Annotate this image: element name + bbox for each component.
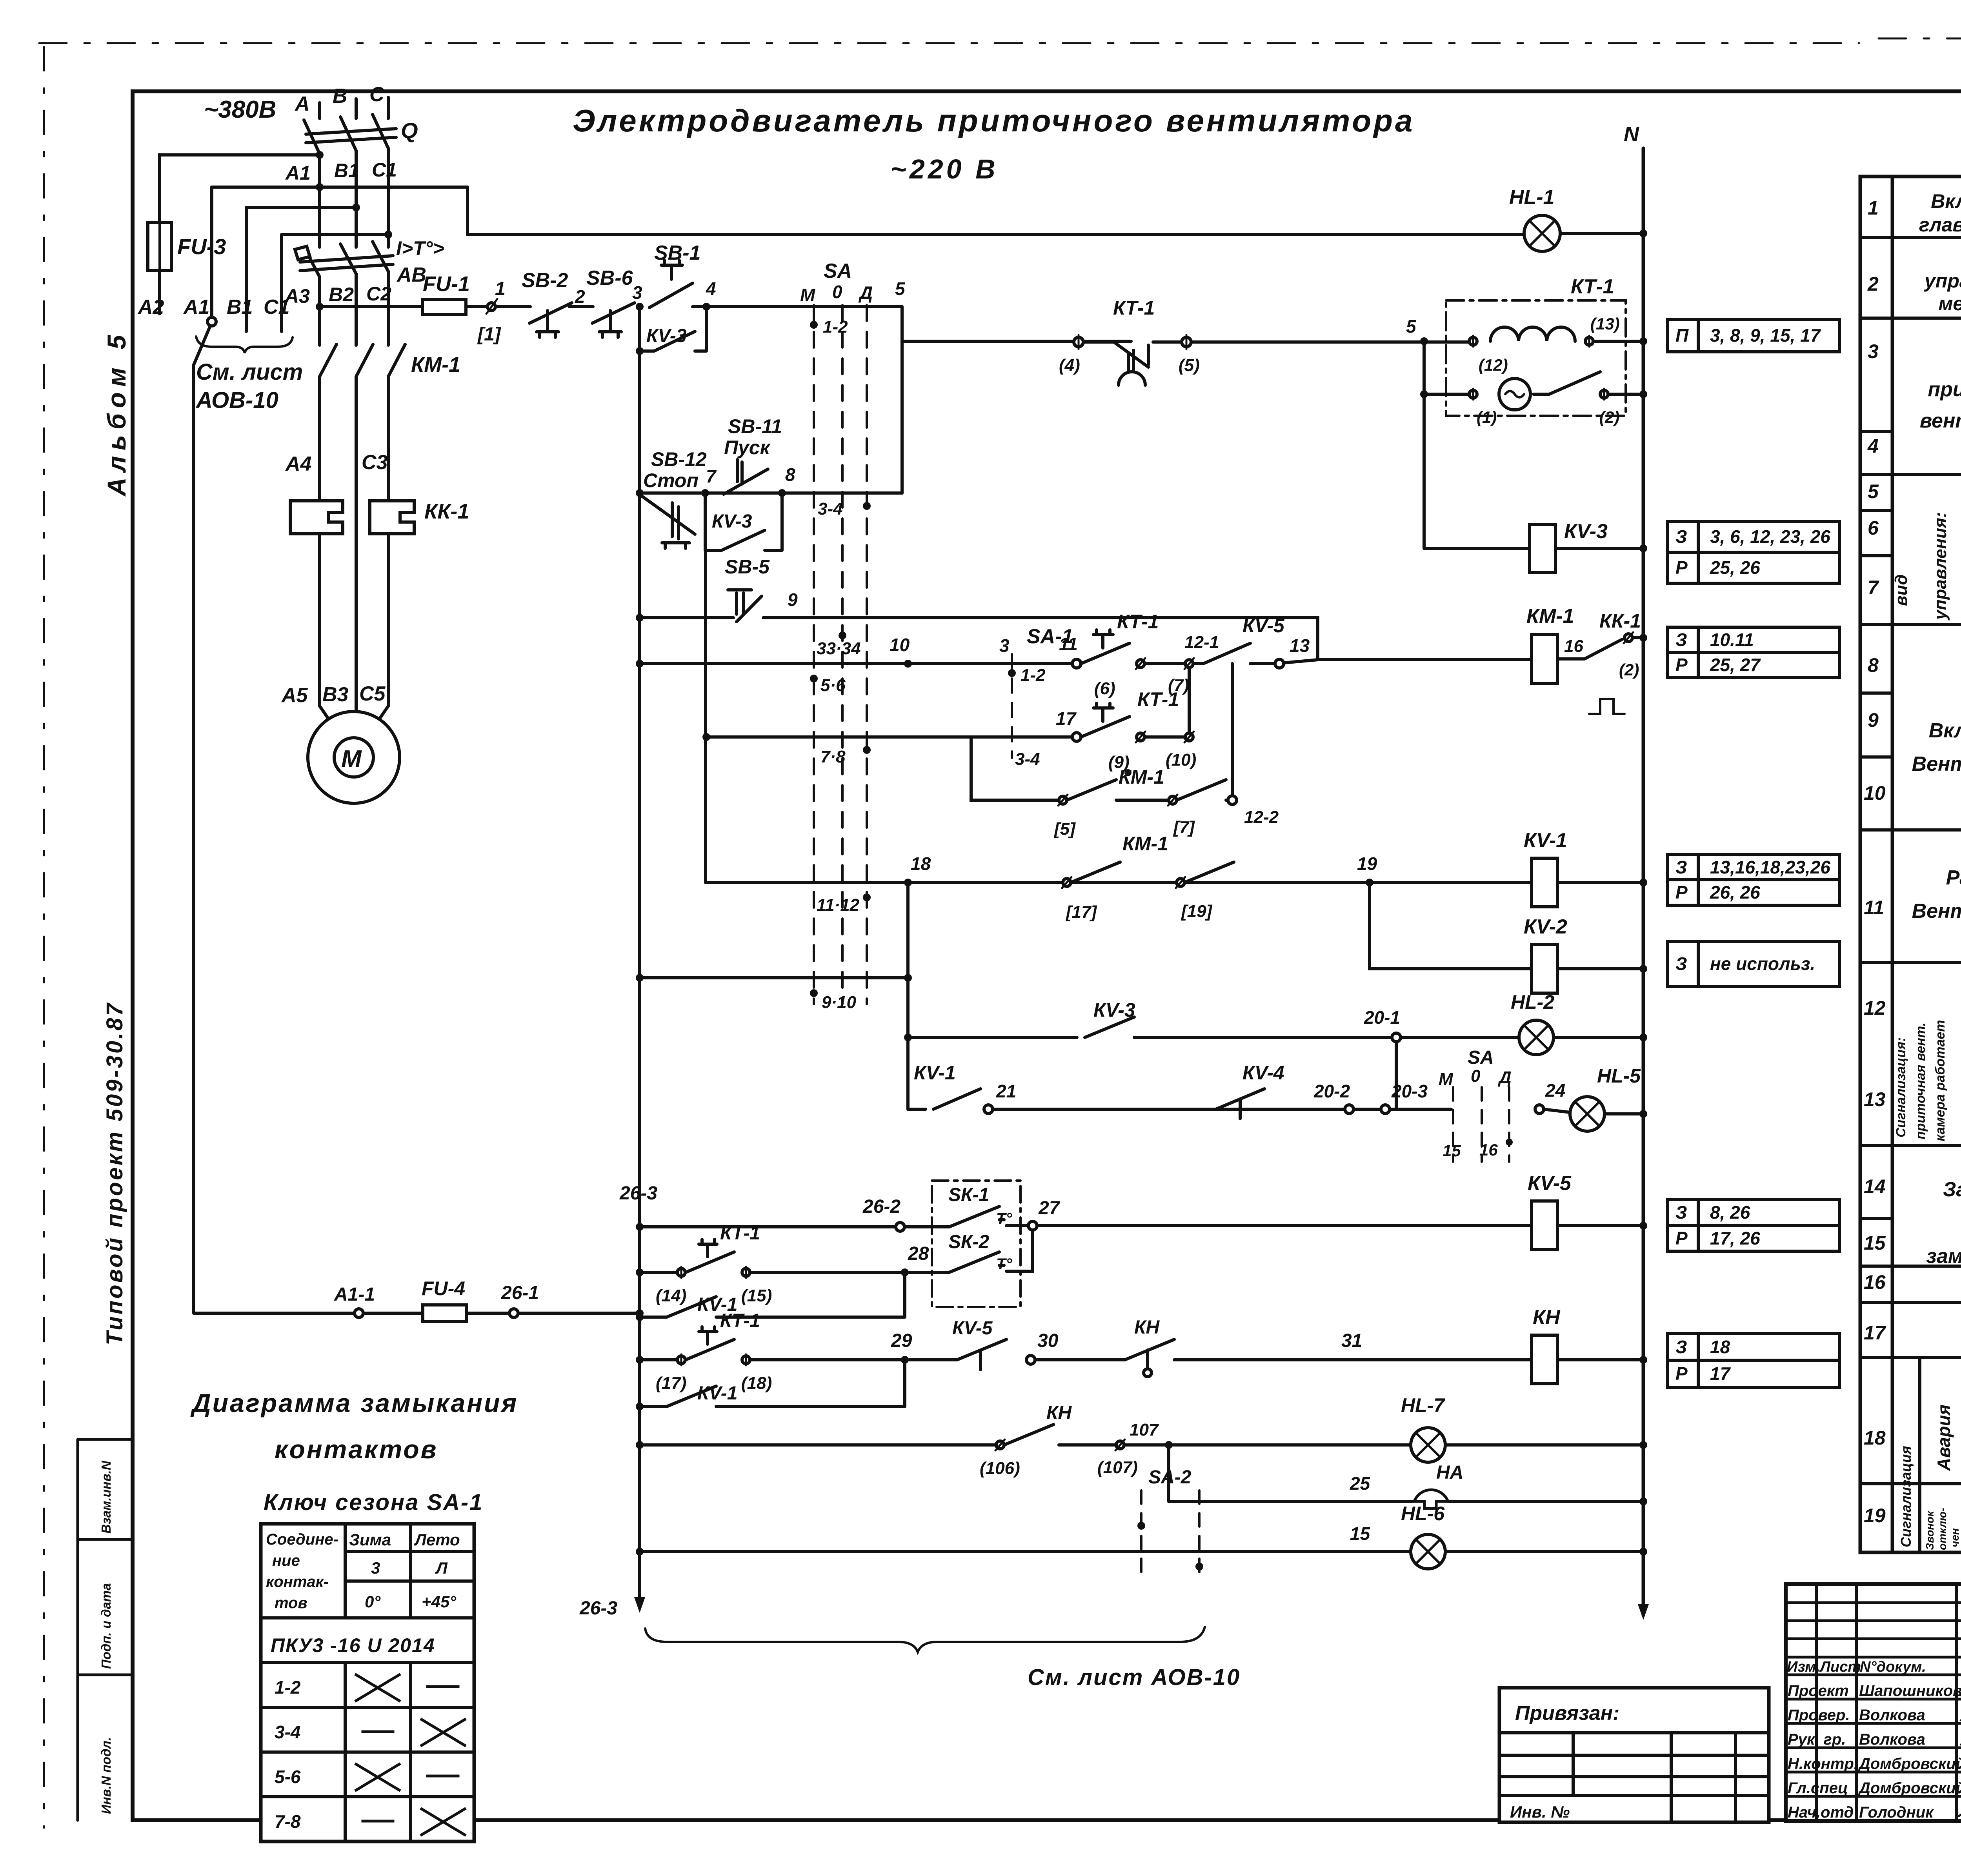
svg-text:9·10: 9·10: [822, 993, 857, 1012]
svg-text:Альбом 5: Альбом 5: [102, 329, 131, 497]
node 20-1: [1392, 1033, 1401, 1042]
wire FU-3 tap: [160, 155, 320, 222]
svg-text:КV-5: КV-5: [952, 1318, 993, 1339]
svg-text:Р: Р: [1675, 882, 1688, 903]
svg-text:Вентилятора: Вентилятора: [1912, 753, 1961, 775]
contact KV-3 bypass of SB-11: [705, 497, 782, 550]
contactor KM-1 main blade B: [356, 344, 373, 377]
wire KK-1 to N: [1632, 636, 1643, 639]
node FU-3 tap on phase A: [316, 151, 324, 159]
svg-text:8: 8: [1868, 654, 1879, 676]
svg-text:См. лист: См. лист: [196, 359, 303, 385]
wire phase C top stub: [387, 97, 390, 118]
marking 5-6: [810, 675, 818, 682]
wire phase B Q to AB: [355, 151, 358, 247]
node 13: [1275, 659, 1284, 668]
svg-text:25, 27: 25, 27: [1710, 655, 1761, 675]
svg-text:Сигнализация:: Сигнализация:: [1894, 1037, 1908, 1137]
svg-text:5·6: 5·6: [820, 676, 846, 695]
node 28: [901, 1268, 909, 1276]
circuit breaker AB flag: [295, 246, 310, 260]
svg-text:11·12: 11·12: [817, 895, 860, 915]
svg-text:З: З: [1675, 857, 1687, 877]
node 4 junction: [702, 303, 710, 311]
wire phase C AB to rung: [387, 271, 390, 345]
SA switch right leg: [900, 307, 904, 493]
svg-text:КМ-1: КМ-1: [1122, 833, 1168, 855]
table row divider y2116: [1860, 828, 1961, 832]
svg-text:HL-7: HL-7: [1401, 1394, 1445, 1416]
row 3-4 marks: [363, 1720, 465, 1745]
neutral bus arrow: [1638, 1604, 1649, 1620]
wire HL-1 to N: [1560, 232, 1643, 235]
contact KV-5 rung10: [1193, 643, 1279, 664]
svg-text:Пуск: Пуск: [724, 437, 771, 459]
svg-text:20-1: 20-1: [1364, 1007, 1400, 1028]
svg-text:28: 28: [908, 1243, 929, 1264]
wire 20-1 to HL-2: [1401, 1036, 1519, 1039]
SA-1 node 1-2: [1008, 669, 1016, 677]
svg-text:Привязан:: Привязан:: [1515, 1702, 1619, 1725]
svg-text:Изм.Лист: Изм.Лист: [1787, 1659, 1861, 1675]
marking 33-34: [839, 631, 846, 639]
wire phase B top stub: [355, 99, 358, 118]
svg-text:20-3: 20-3: [1391, 1081, 1428, 1101]
svg-text:107: 107: [1130, 1420, 1159, 1439]
svg-text:АОВ-10: АОВ-10: [195, 388, 278, 413]
svg-text:SB-1: SB-1: [654, 242, 700, 264]
svg-text:Провер.: Провер.: [1788, 1707, 1850, 1724]
row 1-2 marks: [356, 1675, 458, 1701]
thermal sensors dash-dot box: [932, 1181, 1021, 1307]
svg-text:13: 13: [1864, 1088, 1886, 1110]
svg-text:29: 29: [891, 1330, 912, 1351]
KT-1 motor row terminal 2: [1600, 390, 1608, 398]
svg-text:[19]: [19]: [1181, 902, 1213, 921]
wire KT-1 drop to row2: [1424, 393, 1469, 396]
node KT-1 drop row2: [1420, 390, 1428, 398]
contactor KM-1 main blade A: [320, 344, 337, 377]
relay coil KV-3: [1530, 524, 1555, 573]
terminal 26-1: [509, 1309, 518, 1317]
svg-text:SB-2: SB-2: [522, 269, 568, 292]
svg-text:I>T°>: I>T°>: [396, 237, 444, 259]
SA-2 node on rung HL-6: [1195, 1563, 1203, 1570]
svg-text:Домбровский: Домбровский: [1858, 1755, 1961, 1772]
svg-text:Типовой проект 509-30.87: Типовой проект 509-30.87: [102, 1001, 127, 1345]
lamp HL-6: [1411, 1534, 1445, 1569]
svg-text:Инв.N подл.: Инв.N подл.: [99, 1737, 113, 1814]
wire node13 to KM-1 coil: [1284, 660, 1532, 663]
svg-text:В1: В1: [334, 160, 359, 182]
table number-column divider y1417: [1860, 554, 1892, 557]
marking 11-12: [863, 893, 871, 901]
relay coil KV-5: [1532, 1201, 1557, 1250]
marking 9-10: [810, 989, 818, 997]
KT-1 motor row terminal 1: [1469, 390, 1477, 398]
table number-column divider y1301: [1860, 509, 1892, 512]
svg-text:15: 15: [1443, 1141, 1461, 1160]
svg-text:(12): (12): [1479, 356, 1508, 374]
table row divider y3321: [1860, 1301, 1961, 1304]
terminal after KT-1 rung17: [1137, 733, 1144, 741]
circuit breaker AB crossbar: [300, 256, 393, 271]
svg-text:SB-12: SB-12: [651, 448, 707, 470]
drop 20-1: [1395, 1042, 1398, 1109]
svg-text:7: 7: [706, 466, 717, 486]
svg-text:Нач.отд: Нач.отд: [1788, 1804, 1854, 1821]
wire KV-5 coil to N: [1557, 1224, 1643, 1227]
SA-2 node dot: [1137, 1522, 1145, 1530]
svg-text:11: 11: [1864, 897, 1884, 919]
svg-text:местный: местный: [1938, 293, 1961, 315]
pushbutton SB-1: [649, 260, 693, 308]
svg-text:управления:: управления:: [1931, 512, 1950, 620]
svg-text:26-3: 26-3: [619, 1183, 657, 1204]
control bus left vertical: [638, 307, 641, 1608]
table number-column divider y1767: [1860, 691, 1892, 695]
svg-text:Звонок: Звонок: [1924, 1510, 1936, 1550]
motor M outer circle: [308, 711, 400, 803]
table number-column divider y3783: [1860, 1482, 1892, 1485]
node SB-5 on bus: [636, 614, 644, 622]
svg-text:(14): (14): [656, 1286, 686, 1305]
svg-text:КV-3: КV-3: [1564, 520, 1608, 543]
svg-text:(17): (17): [656, 1374, 686, 1393]
contactor KM-1 main blade C: [388, 344, 405, 377]
svg-text:КТ-1: КТ-1: [1137, 688, 1179, 710]
svg-text:Подп. и дата: Подп. и дата: [99, 1583, 113, 1669]
lamp rung HL-1: [468, 233, 1524, 236]
svg-text:3, 8, 9, 15, 17: 3, 8, 9, 15, 17: [1710, 325, 1821, 346]
svg-text:З: З: [1675, 630, 1687, 650]
svg-text:В1: В1: [227, 296, 253, 318]
svg-text:SB-6: SB-6: [586, 267, 633, 289]
wire rung 9: [786, 618, 1318, 660]
svg-text:М: М: [341, 746, 362, 773]
svg-text:(15): (15): [741, 1286, 772, 1305]
svg-text:16: 16: [1479, 1141, 1498, 1159]
terminal 26-2: [896, 1223, 904, 1231]
wire HL-6 to N: [1445, 1550, 1643, 1553]
node 20-2: [1345, 1105, 1353, 1114]
svg-text:Ключ сезона SA-1: Ключ сезона SA-1: [264, 1490, 483, 1515]
node 19: [1366, 879, 1373, 886]
svg-text:3-4: 3-4: [275, 1722, 300, 1742]
rung 29 time contact KT-1: [640, 1358, 677, 1361]
svg-text:Включение: Включение: [1929, 719, 1961, 742]
svg-text:венткамеры: венткамеры: [1920, 409, 1961, 432]
node 20-3: [1381, 1105, 1390, 1114]
row 5-6 marks: [356, 1764, 458, 1790]
svg-text:18: 18: [1710, 1337, 1730, 1357]
svg-text:Волкова: Волкова: [1859, 1707, 1925, 1724]
wire node4 to SA: [693, 305, 902, 308]
node 17: [1072, 733, 1081, 741]
svg-text:16: 16: [1864, 1271, 1886, 1293]
svg-text:8, 26: 8, 26: [1710, 1202, 1750, 1223]
svg-text:9: 9: [1868, 709, 1879, 731]
svg-text:[5]: [5]: [1053, 819, 1076, 839]
KT-1 winding terminal 13: [1585, 337, 1593, 345]
wire KT-1 row2 to N: [1608, 393, 1643, 396]
reference box Z-18: [1668, 1334, 1839, 1387]
wire node 27 to KV-5 coil: [1037, 1224, 1532, 1227]
function table outer: [1860, 177, 1961, 1552]
svg-text:Р: Р: [1675, 655, 1688, 675]
SA-1 dashed column: [1011, 654, 1013, 758]
svg-text:Авария: Авария: [1934, 1405, 1954, 1471]
svg-text:(18): (18): [741, 1374, 772, 1393]
svg-text:12-1: 12-1: [1184, 633, 1219, 652]
node KT-1 drop top: [1420, 337, 1428, 345]
stop-start rung wire: [640, 491, 902, 495]
svg-text:12-2: 12-2: [1244, 808, 1279, 827]
binding box: [1499, 1688, 1769, 1822]
disconnect switch Q crossbar: [306, 129, 396, 143]
row 7-8 marks: [363, 1809, 465, 1835]
svg-text:(13): (13): [1590, 315, 1620, 333]
svg-text:Л: Л: [435, 1559, 448, 1577]
season key row lines: [261, 1707, 474, 1797]
svg-text:26-2: 26-2: [862, 1196, 900, 1217]
relay coil KV-1: [1532, 858, 1557, 907]
svg-text:Волкова: Волкова: [1859, 1731, 1925, 1748]
svg-text:КМ-1: КМ-1: [1119, 766, 1164, 788]
svg-text:+45°: +45°: [422, 1592, 457, 1611]
svg-text:[7]: [7]: [1173, 818, 1195, 837]
time relay contact KT-1 blade with dashpot: [1083, 342, 1148, 372]
marking 7-8: [863, 746, 871, 754]
SA-2 dashed columns: [1141, 1490, 1199, 1581]
wire KH coil to N: [1557, 1358, 1643, 1361]
sensor contact SK-2: [909, 1252, 1004, 1272]
rung 28 time contact KT-1: [640, 1271, 677, 1274]
KT-1 sync motor symbol: [1499, 378, 1530, 410]
node 7: [701, 489, 709, 497]
svg-text:SB-5: SB-5: [725, 556, 770, 578]
svg-text:(107): (107): [1097, 1458, 1138, 1477]
svg-text:См. лист АОВ-10: См. лист АОВ-10: [1028, 1665, 1241, 1690]
time contact KT-1 rung17: [1081, 703, 1130, 737]
svg-text:вид: вид: [1892, 574, 1911, 606]
wire KT-1 winding to N: [1593, 340, 1643, 343]
svg-text:главной цепи: главной цепи: [1919, 214, 1961, 236]
wire KV-1 coil to N: [1557, 881, 1643, 884]
svg-text:26, 26: 26, 26: [1710, 882, 1760, 903]
wire feeder B1: [246, 207, 356, 331]
svg-text:3-4: 3-4: [818, 499, 843, 519]
svg-text:HL-1: HL-1: [1509, 186, 1555, 209]
svg-text:8: 8: [785, 464, 795, 485]
table row divider y2920: [1860, 1144, 1961, 1147]
contact KH rung29: [1035, 1339, 1174, 1370]
svg-text:26-1: 26-1: [501, 1283, 539, 1303]
svg-text:замерзания: замерзания: [1926, 1245, 1961, 1268]
svg-text:управления:: управления:: [1923, 270, 1961, 292]
svg-text:В3: В3: [322, 683, 349, 706]
wire phase A top stub: [318, 103, 321, 118]
node 10: [904, 660, 912, 668]
rung 18 wire: [706, 881, 1532, 884]
svg-text:17, 26: 17, 26: [1710, 1228, 1760, 1248]
time contact KT-1 rung10: [1081, 630, 1130, 664]
table row divider y2454: [1860, 961, 1961, 964]
svg-text:Q: Q: [401, 118, 418, 143]
svg-text:Зима: Зима: [349, 1530, 391, 1549]
rung HA bell: [1169, 1500, 1412, 1503]
stop button rung junction: [636, 489, 644, 497]
disconnect switch Q blades: [304, 115, 388, 154]
svg-text:КV-1: КV-1: [1524, 829, 1567, 852]
rung 17 wire: [706, 735, 1077, 739]
node 8: [778, 489, 786, 497]
thermal contact KK-1: [1557, 639, 1622, 659]
svg-text:3: 3: [1868, 340, 1879, 362]
svg-text:1-2: 1-2: [1021, 666, 1046, 685]
wire HA to N: [1448, 1500, 1643, 1503]
svg-text:Вентилятора: Вентилятора: [1912, 900, 1961, 923]
svg-text:27: 27: [1038, 1198, 1061, 1219]
svg-text:5: 5: [895, 278, 906, 299]
node FU-4 on bus: [636, 1309, 644, 1317]
svg-text:КV-3: КV-3: [646, 326, 687, 346]
season key header rows: [261, 1552, 474, 1663]
terminal circle feeder A1: [207, 317, 216, 326]
svg-text:А: А: [294, 93, 310, 115]
svg-text:КК-1: КК-1: [424, 500, 469, 523]
rung 10 wire: [640, 662, 1077, 665]
svg-text:З: З: [1675, 953, 1687, 974]
svg-text:Сигнализация: Сигнализация: [1898, 1446, 1914, 1547]
svg-text:3: 3: [632, 282, 642, 303]
svg-text:отклю-: отклю-: [1936, 1508, 1948, 1550]
node 18: [904, 879, 912, 886]
relay coil KH: [1532, 1335, 1557, 1384]
svg-text:16: 16: [1564, 637, 1583, 656]
svg-text:КК-1: КК-1: [1599, 610, 1641, 632]
svg-text:SA-2: SA-2: [1148, 1467, 1192, 1488]
svg-text:(6): (6): [1094, 679, 1115, 698]
svg-text:КМ-1: КМ-1: [411, 353, 460, 377]
svg-text:С1: С1: [372, 159, 397, 181]
revision grid rows: [1786, 1603, 1961, 1657]
wire phase A to heater: [318, 377, 321, 501]
svg-text:0°: 0°: [365, 1592, 381, 1611]
lamp HL-5: [1570, 1097, 1604, 1131]
svg-text:5: 5: [1406, 316, 1417, 337]
svg-text:М: М: [1439, 1070, 1453, 1089]
relay coil KV-2: [1532, 944, 1557, 993]
brace see sheet AOV-10: [196, 337, 293, 353]
wire phase B to motor: [355, 377, 358, 711]
table row divider y811: [1860, 317, 1961, 320]
svg-text:19: 19: [1357, 853, 1377, 874]
wire phase C heater to motor: [375, 534, 388, 725]
wire rung 29: [750, 1358, 904, 1361]
svg-text:7·8: 7·8: [820, 747, 846, 766]
svg-text:HL-5: HL-5: [1597, 1065, 1641, 1087]
KT-1 winding terminal 12: [1469, 337, 1477, 345]
svg-text:Электродвигатель приточного ве: Электродвигатель приточного вентилятора: [573, 103, 1415, 138]
table number-column divider y3107: [1860, 1217, 1892, 1220]
node rung17: [702, 733, 710, 741]
svg-text:П: П: [1675, 325, 1689, 346]
svg-text:КТ-1: КТ-1: [1571, 275, 1614, 298]
svg-text:13,16,18,23,26: 13,16,18,23,26: [1710, 857, 1830, 877]
contact KV-4: [1216, 1089, 1264, 1119]
node 30: [1026, 1356, 1035, 1364]
svg-text:Защита: Защита: [1943, 1178, 1961, 1201]
wire 24 to HL-5: [1544, 1109, 1570, 1112]
staff rows: [1786, 1675, 1961, 1796]
node phase C feeder: [384, 231, 392, 238]
node phase B feeder: [352, 204, 360, 211]
svg-text:Р: Р: [1675, 557, 1688, 578]
SA dashed column O: [841, 305, 844, 1004]
terminal after KT-1: [1137, 660, 1144, 668]
SA contact node 1-2: [810, 321, 818, 329]
contact KV-3 bypass of SB-1: [640, 307, 706, 351]
time relay KT-1 dash-dot box: [1446, 300, 1626, 416]
table row divider y1592: [1860, 623, 1961, 626]
svg-text:17: 17: [1056, 708, 1077, 729]
svg-text:З: З: [1675, 1202, 1687, 1223]
wire KV-2 coil to N: [1557, 967, 1643, 970]
svg-text:КТ-1: КТ-1: [720, 1223, 760, 1244]
svg-text:4: 4: [706, 278, 716, 299]
SA dashed column M: [813, 305, 815, 1004]
svg-text:Инв. №: Инв. №: [1510, 1803, 1570, 1821]
svg-text:КV-3: КV-3: [712, 511, 752, 532]
wire SB-2 to SB-6: [569, 305, 593, 308]
svg-text:КV-3: КV-3: [1093, 999, 1135, 1021]
svg-text:КМ-1: КМ-1: [1526, 605, 1574, 628]
svg-text:А1: А1: [285, 162, 311, 184]
rung HL-6: [640, 1550, 1411, 1553]
svg-text:17: 17: [1710, 1363, 1731, 1384]
svg-text:(1): (1): [1477, 408, 1497, 426]
SA contact node 3-4: [863, 502, 871, 510]
svg-text:5: 5: [1868, 480, 1879, 502]
svg-text:В: В: [333, 85, 347, 107]
svg-text:3, 6, 12, 23, 26: 3, 6, 12, 23, 26: [1710, 526, 1830, 547]
svg-text:12: 12: [1864, 997, 1886, 1019]
rung SK-1 wire: [640, 1225, 896, 1228]
svg-text:Р: Р: [1675, 1228, 1688, 1248]
wire SK-2 up to node 27: [1006, 1230, 1033, 1271]
svg-text:С2: С2: [366, 283, 391, 305]
svg-text:КН: КН: [1533, 1306, 1561, 1329]
svg-text:FU-4: FU-4: [422, 1277, 465, 1299]
svg-text:7-8: 7-8: [275, 1811, 301, 1832]
svg-text:КН: КН: [1046, 1403, 1072, 1423]
svg-text:Д: Д: [858, 282, 873, 303]
svg-text:[17]: [17]: [1065, 903, 1097, 922]
branch KV-2: [1370, 883, 1532, 969]
reference box Z-ne-ispolz: [1668, 941, 1839, 986]
control bus bottom arrow: [634, 1597, 645, 1613]
wire SA exit to KT-1 contact: [902, 340, 1131, 343]
reference box P-3-8-9-15-17: [1668, 319, 1839, 352]
svg-text:контак-: контак-: [266, 1573, 329, 1590]
svg-text:20-2: 20-2: [1313, 1081, 1350, 1101]
svg-text:Голодник: Голодник: [1859, 1804, 1934, 1821]
svg-text:З: З: [1675, 1337, 1687, 1357]
svg-text:7: 7: [1868, 577, 1879, 599]
svg-text:1-2: 1-2: [823, 317, 848, 337]
svg-text:тов: тов: [275, 1594, 307, 1612]
